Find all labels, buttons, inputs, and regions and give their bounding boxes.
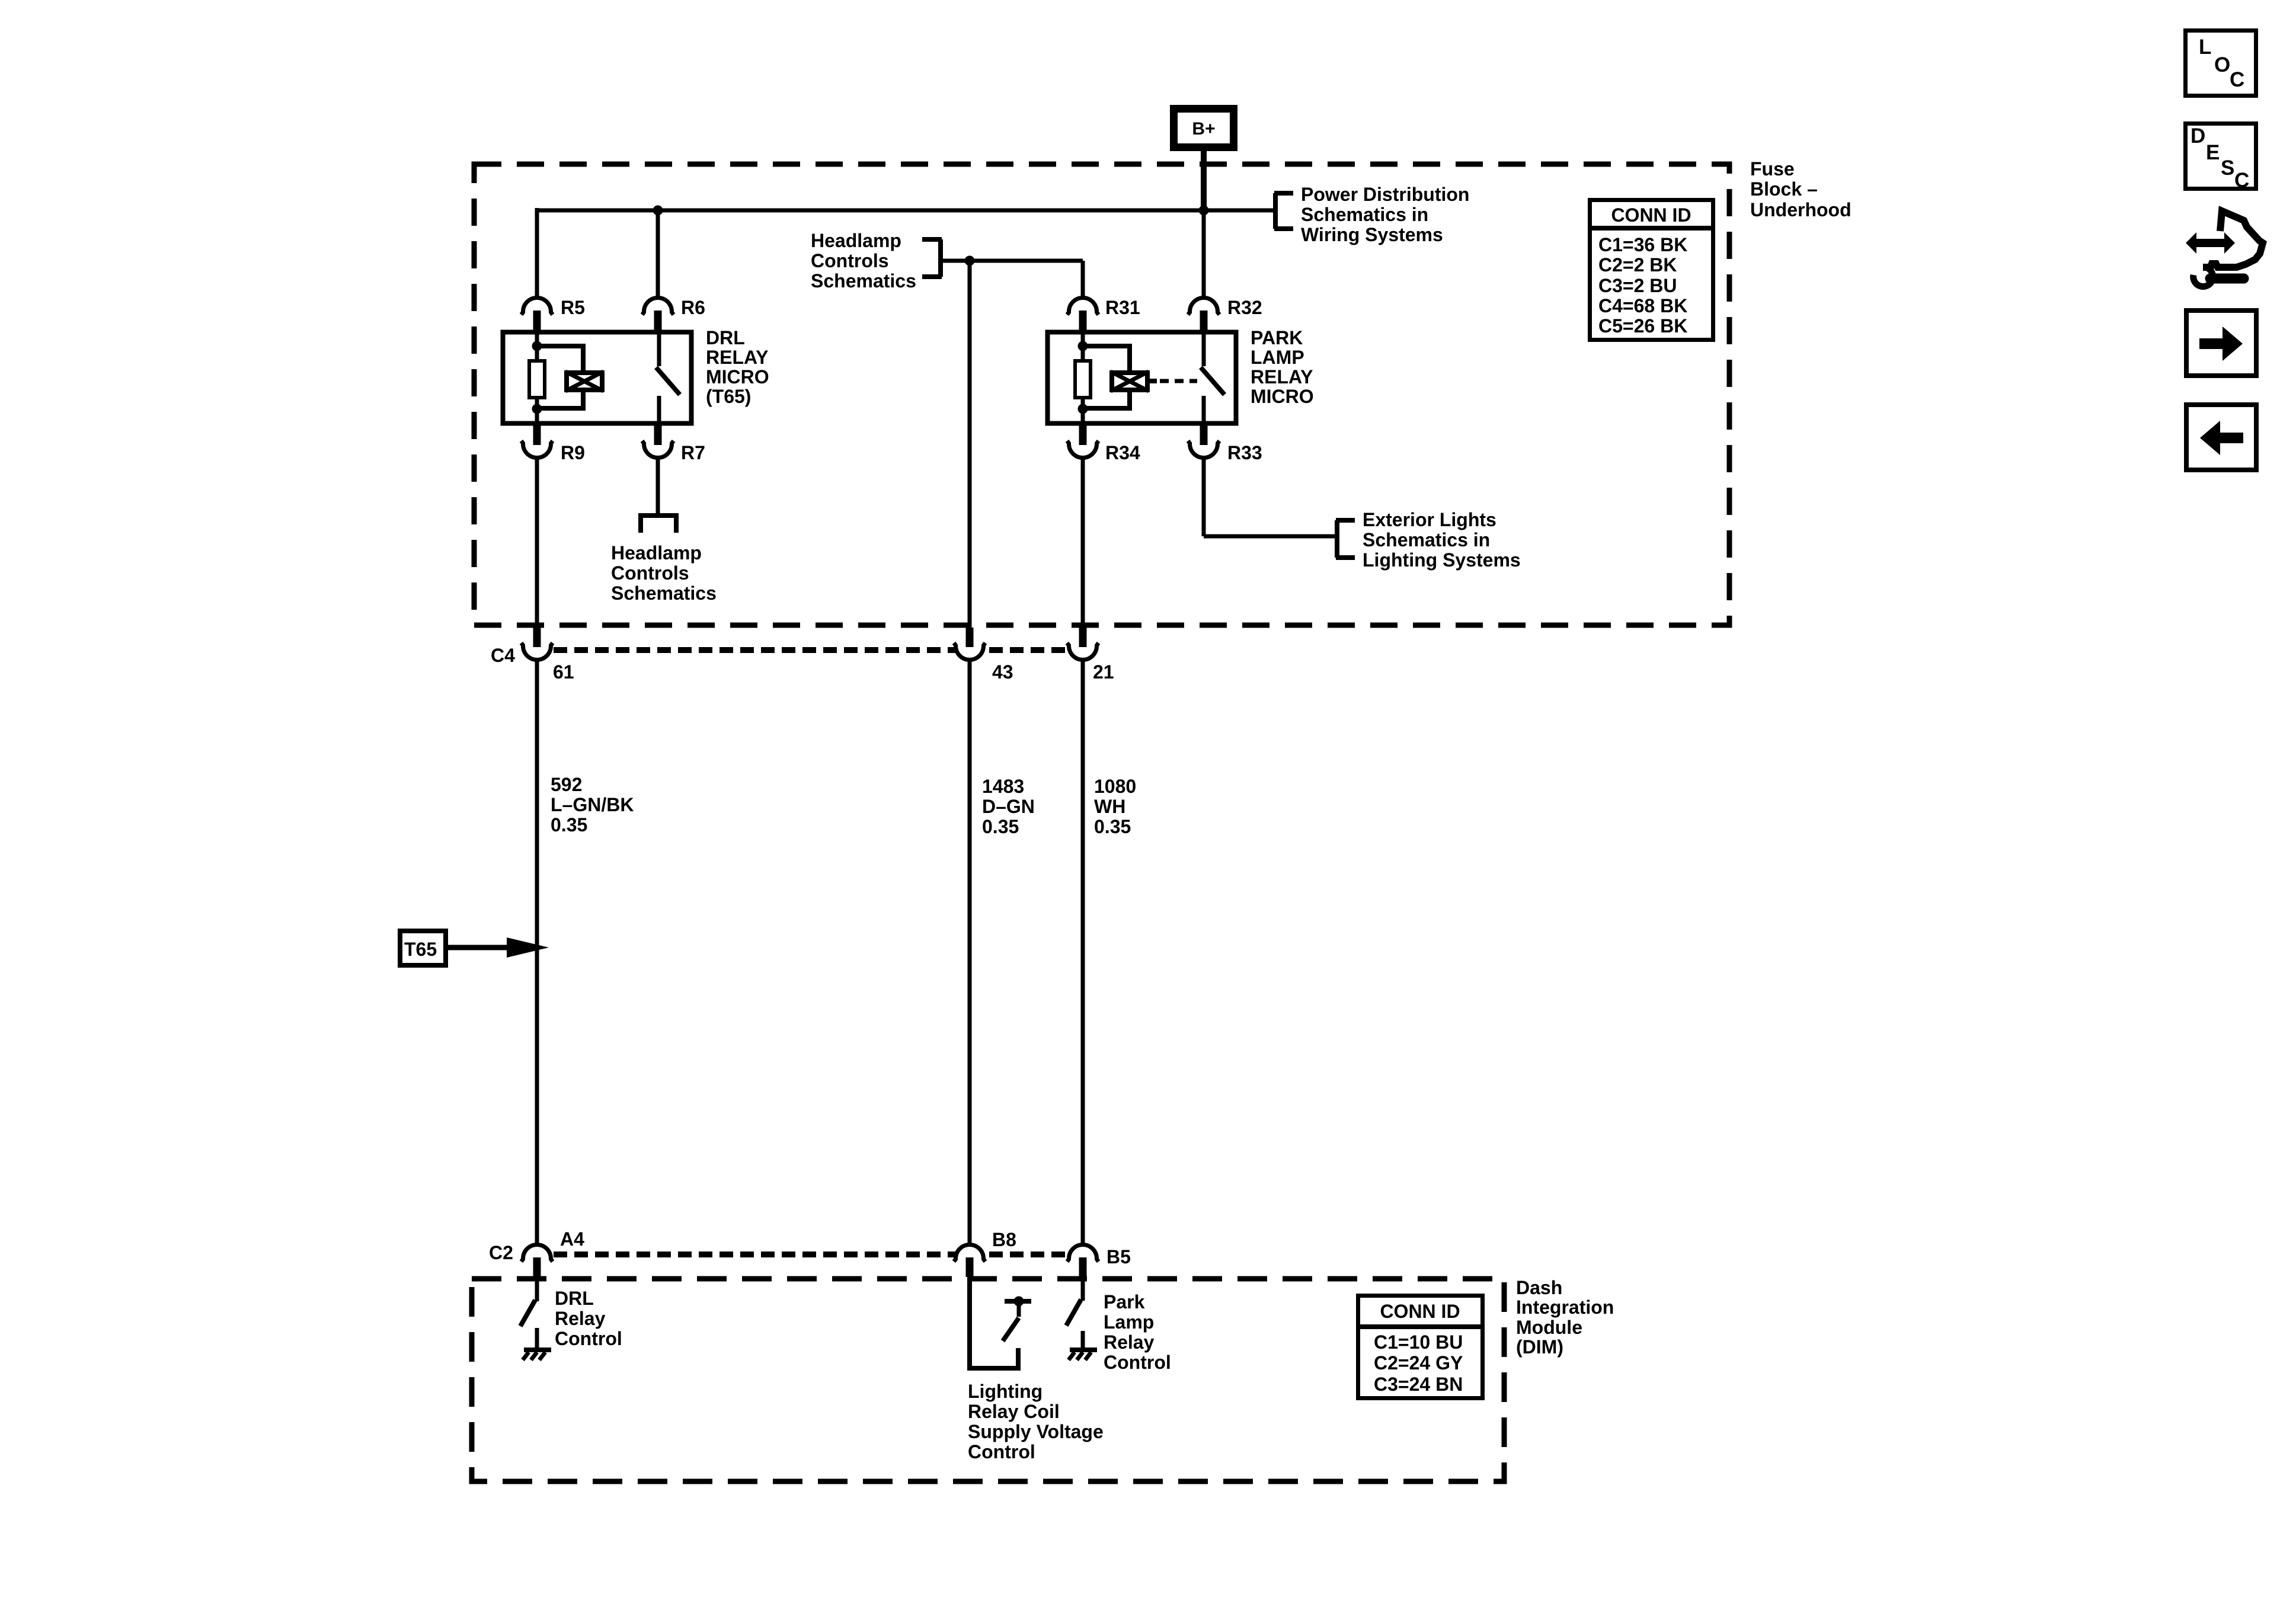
coil park lamp relay (X box)	[1112, 373, 1147, 390]
DIM CONN ID table	[1358, 1296, 1483, 1398]
DRL coil branch wire	[535, 330, 539, 361]
svg-text:Relay: Relay	[1104, 1331, 1155, 1353]
junction lighting supply	[1014, 1297, 1024, 1307]
svg-text:1080: 1080	[1094, 776, 1136, 797]
switch DRL relay control	[520, 1300, 535, 1326]
svg-text:0.35: 0.35	[982, 816, 1019, 837]
wire 1483 D-GN	[968, 660, 972, 1246]
bracket to Power Distribution Schematics	[1273, 193, 1278, 229]
coil DRL relay (X box)	[567, 373, 602, 390]
svg-text:B8: B8	[992, 1229, 1016, 1250]
svg-text:MICRO: MICRO	[706, 366, 769, 388]
node B+ battery feed	[1174, 109, 1234, 148]
switch lighting relay coil supply voltage control	[1003, 1318, 1019, 1341]
svg-text:DRL: DRL	[555, 1288, 594, 1309]
pin R31 connector	[1081, 299, 1085, 312]
svg-text:B+: B+	[1192, 119, 1215, 139]
goes-to bracket under R7	[641, 516, 676, 533]
svg-text:Headlamp: Headlamp	[811, 230, 901, 251]
svg-text:Lamp: Lamp	[1104, 1311, 1154, 1333]
svg-text:Schematics in: Schematics in	[1363, 529, 1490, 550]
svg-text:Controls: Controls	[811, 250, 889, 271]
switch DRL relay	[657, 330, 661, 366]
wire drop to R31	[1081, 261, 1085, 299]
junction park coil top	[1078, 341, 1088, 351]
svg-text:Fuse: Fuse	[1750, 158, 1795, 180]
svg-text:RELAY: RELAY	[1251, 366, 1313, 388]
wire R34 to C4 pin 21	[1081, 457, 1085, 629]
connector C2 pin A4	[522, 1244, 553, 1262]
connector row C4 dashed line	[554, 647, 1067, 653]
switch park lamp relay	[1202, 330, 1206, 366]
svg-text:PARK: PARK	[1251, 327, 1303, 348]
svg-text:Relay: Relay	[555, 1308, 606, 1329]
svg-text:Wiring Systems: Wiring Systems	[1301, 224, 1443, 245]
svg-text:B5: B5	[1107, 1246, 1131, 1267]
svg-text:Integration: Integration	[1516, 1297, 1614, 1318]
svg-text:R32: R32	[1227, 297, 1262, 318]
icon connector repair (arrow + terminal + wrench)	[2186, 211, 2263, 287]
svg-text:Headlamp: Headlamp	[611, 542, 702, 564]
resistor park lamp relay	[1075, 361, 1091, 398]
wire A4 to DRL relay control switch	[535, 1277, 539, 1301]
fuse block underhood dashed enclosure	[474, 164, 1729, 625]
svg-text:43: 43	[992, 661, 1013, 683]
park coil branch wire	[1081, 330, 1085, 361]
pin R32 connector	[1202, 299, 1206, 312]
junction DRL coil top	[532, 341, 542, 351]
svg-text:0.35: 0.35	[1094, 816, 1131, 837]
svg-text:C1=10 BU: C1=10 BU	[1374, 1331, 1463, 1353]
wire drop to C4 pin 43	[968, 261, 972, 629]
svg-text:LAMP: LAMP	[1251, 347, 1304, 368]
svg-text:61: 61	[553, 661, 574, 683]
pin R6 connector	[656, 299, 660, 312]
icon back arrow box	[2186, 405, 2256, 470]
pin R33 connector	[1188, 441, 1220, 457]
actuator dashed link coil to switch	[1150, 379, 1157, 383]
svg-text:(DIM): (DIM)	[1516, 1336, 1563, 1358]
svg-text:(T65): (T65)	[706, 386, 751, 407]
pin R5 connector	[535, 299, 539, 312]
wire R9 to C4 pin 61	[535, 457, 539, 629]
wire R33 to exterior lights bracket	[1202, 457, 1206, 536]
wire 592 L-GN/BK	[535, 660, 539, 1246]
junction B+ / R32	[1199, 206, 1209, 216]
svg-text:Control: Control	[555, 1328, 622, 1349]
wire DRL coil parallel branch	[537, 346, 583, 370]
arrow T65 to wire	[448, 945, 510, 950]
junction DRL coil bottom	[532, 404, 542, 414]
svg-text:Exterior Lights: Exterior Lights	[1363, 509, 1496, 530]
label box T65	[400, 931, 446, 965]
icon forward arrow box	[2186, 311, 2256, 376]
connector C2 pin B5	[1067, 1244, 1099, 1262]
wire B+ vertical drop to bus	[1201, 151, 1207, 210]
wire headlamp feed horizontal	[941, 259, 1083, 263]
svg-text:R6: R6	[681, 297, 705, 318]
wire park coil parallel branch	[1083, 346, 1130, 370]
svg-text:CONN ID: CONN ID	[1611, 204, 1691, 226]
svg-text:Schematics: Schematics	[811, 270, 916, 292]
svg-text:L: L	[2199, 36, 2211, 59]
svg-text:RELAY: RELAY	[706, 347, 769, 368]
svg-text:Underhood: Underhood	[1750, 199, 1851, 220]
svg-text:R31: R31	[1105, 297, 1140, 318]
svg-text:21: 21	[1093, 661, 1114, 683]
icon LOC box	[2186, 31, 2256, 96]
svg-text:1483: 1483	[982, 776, 1024, 797]
svg-text:Park: Park	[1104, 1291, 1145, 1313]
pin R34 connector	[1067, 441, 1099, 457]
junction park coil bottom	[1078, 404, 1088, 414]
pin R7 connector	[642, 441, 674, 457]
wire B8 to lighting relay coil supply	[970, 1277, 1018, 1368]
svg-text:C5=26 BK: C5=26 BK	[1598, 315, 1687, 337]
svg-text:D–GN: D–GN	[982, 796, 1035, 817]
svg-text:Control: Control	[1104, 1352, 1171, 1373]
svg-text:MICRO: MICRO	[1251, 386, 1314, 407]
svg-text:Schematics in: Schematics in	[1301, 204, 1428, 225]
connector C4 pin 61	[522, 643, 553, 660]
svg-text:C2=2 BK: C2=2 BK	[1598, 254, 1677, 276]
switch park lamp relay control	[1066, 1299, 1081, 1326]
icon DESC box	[2186, 124, 2256, 189]
junction headlamp feed / pin 43 wire	[965, 256, 975, 266]
fuse block CONN ID table	[1590, 200, 1713, 340]
svg-text:Relay Coil: Relay Coil	[968, 1401, 1060, 1422]
svg-text:Schematics: Schematics	[611, 582, 717, 604]
svg-text:R33: R33	[1227, 442, 1262, 463]
dash integration module dashed enclosure	[472, 1279, 1504, 1481]
bracket to Exterior Lights Schematics	[1335, 520, 1339, 558]
svg-text:L–GN/BK: L–GN/BK	[551, 794, 634, 815]
resistor DRL relay	[529, 361, 545, 398]
svg-text:R34: R34	[1105, 442, 1140, 463]
svg-text:C2: C2	[489, 1242, 513, 1263]
svg-text:C1=36 BK: C1=36 BK	[1598, 234, 1687, 255]
svg-text:Dash: Dash	[1516, 1277, 1562, 1298]
svg-text:O: O	[2214, 53, 2230, 76]
relay DRL RELAY MICRO (T65) box	[503, 332, 692, 424]
svg-text:Controls: Controls	[611, 562, 689, 584]
wire R7 stub to headlamp controls out	[656, 457, 660, 514]
connector C2 pin B8	[954, 1244, 986, 1262]
svg-text:E: E	[2206, 141, 2220, 164]
svg-text:C: C	[2234, 169, 2249, 192]
lighting relay coil supply contact bar	[1005, 1299, 1031, 1304]
bracket from Headlamp Controls Schematics	[938, 239, 943, 277]
svg-text:C2=24 GY: C2=24 GY	[1374, 1352, 1463, 1374]
svg-text:T65: T65	[404, 939, 437, 960]
ground DRL relay control	[524, 1347, 551, 1352]
svg-text:C4: C4	[491, 645, 515, 666]
svg-text:DRL: DRL	[706, 327, 745, 348]
svg-text:Control: Control	[968, 1441, 1035, 1462]
svg-text:C: C	[2230, 68, 2244, 91]
svg-text:Module: Module	[1516, 1317, 1582, 1338]
wire drop to R6	[656, 210, 660, 299]
svg-text:R7: R7	[681, 442, 705, 463]
svg-text:D: D	[2191, 124, 2205, 148]
junction R6 branch	[653, 206, 663, 216]
svg-text:Lighting Systems: Lighting Systems	[1363, 549, 1521, 571]
connector C4 pin 21	[1067, 643, 1099, 660]
svg-text:0.35: 0.35	[551, 814, 587, 836]
wire B5 to park lamp relay control switch	[1081, 1277, 1085, 1301]
svg-text:R9: R9	[561, 442, 585, 463]
svg-text:S: S	[2221, 156, 2234, 180]
ground park lamp relay control	[1070, 1347, 1097, 1352]
pin R9 connector	[522, 441, 553, 457]
connector C4 pin 43	[954, 643, 986, 660]
wire horizontal B+ bus	[537, 209, 1275, 213]
svg-text:Supply Voltage: Supply Voltage	[968, 1421, 1104, 1442]
connector row C2 dashed line	[554, 1251, 1067, 1257]
wire drop to R32	[1202, 210, 1206, 299]
svg-text:Power Distribution: Power Distribution	[1301, 184, 1469, 205]
svg-text:C3=24 BN: C3=24 BN	[1374, 1374, 1463, 1395]
relay PARK LAMP RELAY MICRO box	[1048, 332, 1236, 424]
wire drop to R5	[535, 208, 539, 299]
svg-text:Lighting: Lighting	[968, 1381, 1043, 1402]
svg-text:Block –: Block –	[1750, 178, 1818, 200]
svg-text:592: 592	[551, 774, 582, 795]
svg-text:C3=2 BU: C3=2 BU	[1598, 275, 1677, 296]
svg-text:WH: WH	[1094, 796, 1125, 817]
svg-text:C4=68 BK: C4=68 BK	[1598, 295, 1687, 316]
wire 1080 WH	[1081, 660, 1085, 1246]
svg-text:R5: R5	[561, 297, 585, 318]
svg-text:A4: A4	[560, 1228, 584, 1250]
svg-text:CONN ID: CONN ID	[1380, 1301, 1460, 1322]
